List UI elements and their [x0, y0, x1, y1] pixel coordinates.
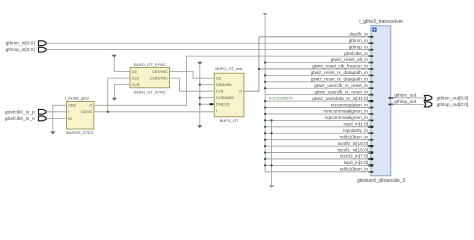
svg-text:gtwizard_ultrascale_0: gtwizard_ultrascale_0 [357, 178, 406, 184]
transceiver pin rxpd_in[1:0] [344, 122, 374, 128]
transceiver pin gtwiz_reset_tx_datapath_in [311, 77, 373, 83]
wire gthtxp out [391, 103, 424, 105]
svg-text:O: O [89, 104, 92, 108]
node txpd junction [271, 164, 273, 166]
svg-text:IB: IB [68, 117, 72, 121]
transceiver pin rx8b10ben_in [340, 134, 374, 140]
svg-text:CLR: CLR [132, 83, 140, 87]
svg-text:txctrl1_in[15:0]: txctrl1_in[15:0] [338, 147, 369, 152]
buffer BUFG_GT_SYNC [130, 62, 170, 94]
transceiver pin tx8b10ben_in [340, 167, 373, 173]
wire IBUFDS O to gtrefclk0_in [94, 56, 371, 105]
svg-text:gtwiz_reset_all_in: gtwiz_reset_all_in [331, 57, 369, 62]
transceiver pin gthtxp_out [389, 99, 417, 105]
wire const to pin row 9 [265, 94, 371, 96]
svg-text:txctrl0_in[15:0]: txctrl0_in[15:0] [338, 141, 369, 146]
port gtrefclk0_in_p [5, 109, 46, 115]
ground bufg mask [197, 125, 202, 128]
wire const to pin row 10 [265, 100, 371, 102]
wire const to pin row 4 [265, 62, 371, 64]
svg-text:gtwiz_userdata_tx_in[31:0]: gtwiz_userdata_tx_in[31:0] [312, 96, 368, 101]
wire const to pin row 19 [265, 158, 371, 160]
wire const to pin row 16 [265, 139, 371, 141]
svg-text:CEB: CEB [68, 104, 76, 108]
ground const rail [269, 185, 274, 188]
svg-text:gthrxp_in[0:0]: gthrxp_in[0:0] [6, 47, 35, 53]
ground sync clr [112, 98, 117, 101]
wire rail to DIV [200, 103, 214, 105]
wire vcc to CE [114, 58, 130, 71]
transceiver pin rxpcommaalignen_in [325, 115, 374, 121]
wire mask rail [199, 65, 201, 125]
wire const to pin row 11 [265, 107, 371, 109]
wire gthrxp net [47, 49, 371, 51]
transceiver pin gtrefclk0_in [344, 51, 373, 57]
wire const to pin row 17 [265, 145, 371, 147]
wire BUFG O to drpclk [244, 37, 371, 91]
svg-text:i_gthe3_transceiver: i_gthe3_transceiver [359, 19, 403, 25]
svg-text:gtwiz_reset_tx_datapath_in: gtwiz_reset_tx_datapath_in [311, 77, 368, 82]
wire const to pin row 18 [265, 152, 371, 154]
buffer BUFG_GT_inst [214, 66, 244, 123]
svg-text:ODIV2: ODIV2 [81, 110, 92, 114]
expand icon + [372, 28, 376, 32]
wire const to pin row 7 [265, 81, 371, 83]
svg-text:BUFG_GT_SYNC: BUFG_GT_SYNC [134, 89, 166, 94]
wire freerun tap [259, 68, 371, 70]
port gthtxn_out[0:0] [424, 95, 468, 101]
svg-text:gthtxp_out[0:0]: gthtxp_out[0:0] [437, 102, 469, 108]
transceiver pin gthrxp_in [349, 44, 374, 50]
svg-text:CEMASK: CEMASK [216, 83, 232, 87]
transceiver pin gthrxn_in [349, 38, 374, 44]
transceiver block i_gthe3_transceiver [357, 19, 406, 184]
svg-text:rxmcommaalignen_in: rxmcommaalignen_in [323, 109, 368, 114]
port gthrxp_in[0:0] [6, 47, 46, 53]
svg-text:CLR: CLR [216, 90, 224, 94]
wire const to pin row 6 [265, 74, 371, 76]
buffer i_ibufds_gte3 IBUFDS_GTE3 [65, 95, 94, 135]
port gthrxn_in[0:0] [6, 41, 46, 47]
svg-text:rxcommadeten_in: rxcommadeten_in [331, 102, 369, 107]
svg-text:gtrefclk0_in: gtrefclk0_in [344, 51, 368, 56]
transceiver pin rxmcommaalignen_in [323, 109, 373, 115]
svg-text:txpd_in[1:0]: txpd_in[1:0] [344, 160, 368, 165]
transceiver pin gtwiz_reset_clk_freerun_in [312, 64, 373, 70]
transceiver pin txctrl2_in[7:0] [340, 154, 373, 160]
wire refclk_p net [46, 111, 66, 113]
transceiver pin gtwiz_reset_all_in [331, 57, 374, 63]
wire CLR to ground [114, 85, 130, 98]
transceiver pin gtwiz_userdata_tx_in[31:0] [312, 96, 373, 102]
wire CEB to ground [53, 105, 67, 131]
svg-text:drpclk_in: drpclk_in [349, 32, 368, 37]
svg-text:rxpd_in[1:0]: rxpd_in[1:0] [344, 122, 369, 127]
node rxpolarity junction [271, 132, 273, 134]
wire refclk_n net [46, 117, 66, 119]
node rxpcomma junction [271, 119, 273, 121]
transceiver pin gthtxn_out [389, 93, 417, 99]
wire gnd rail 2 [271, 120, 273, 185]
transceiver pin gtwiz_userclk_tx_reset_in [314, 89, 373, 95]
svg-text:DIV[2:0]: DIV[2:0] [216, 103, 230, 107]
svg-text:gthtxn_out[0:0]: gthtxn_out[0:0] [437, 95, 469, 101]
svg-text:tx8b10ben_in: tx8b10ben_in [340, 167, 369, 172]
svg-text:BUFG_GT_SYNC: BUFG_GT_SYNC [134, 62, 166, 67]
wire CLK tap [108, 78, 130, 112]
svg-text:gtwiz_reset_rx_datapath_in: gtwiz_reset_rx_datapath_in [311, 70, 369, 75]
wire const to pin row 13 [265, 119, 371, 121]
svg-text:rxpcommaalignen_in: rxpcommaalignen_in [325, 115, 369, 120]
svg-text:gthtxp_out: gthtxp_out [394, 99, 417, 104]
svg-text:CLRMASK: CLRMASK [216, 96, 235, 100]
power vcc const rail [263, 13, 268, 15]
svg-text:gthtxn_out: gthtxn_out [394, 93, 417, 98]
wire ODIV2 to BUFG I [94, 111, 214, 113]
wire const to pin row 8 [265, 87, 371, 89]
transceiver pin rxcommadeten_in [331, 102, 374, 108]
wire gthrxn net [47, 42, 371, 44]
svg-text:gthrxn_in[0:0]: gthrxn_in[0:0] [6, 41, 35, 47]
svg-text:txctrl2_in[7:0]: txctrl2_in[7:0] [340, 154, 368, 159]
node odiv2 junction [107, 111, 109, 113]
transceiver pin txpd_in[1:0] [344, 160, 374, 166]
svg-text:I: I [68, 110, 69, 114]
svg-text:gtrefclk0_in_p: gtrefclk0_in_p [5, 109, 35, 115]
svg-text:BUFG_GT_inst: BUFG_GT_inst [215, 66, 243, 71]
wire const to pin row 15 [265, 132, 371, 134]
transceiver pin drpclk_in [349, 32, 373, 38]
pin DIV bus tick [210, 103, 214, 105]
wire const to pin row 12 [265, 113, 371, 115]
svg-text:gthrxn_in: gthrxn_in [349, 38, 369, 43]
wire gthtxn out [391, 97, 424, 99]
svg-text:i_ibufds_gte3: i_ibufds_gte3 [65, 95, 89, 100]
transceiver pin rxpolarity_in [343, 128, 374, 134]
svg-text:CE: CE [216, 77, 222, 81]
port gthtxp_out[0:0] [424, 102, 468, 108]
svg-text:CLK: CLK [132, 77, 140, 81]
power vcc bufg mask [197, 62, 202, 65]
ground ceb [50, 132, 55, 135]
wire const rail vertical [265, 16, 371, 172]
svg-text:rxpolarity_in: rxpolarity_in [343, 128, 369, 133]
svg-text:gtwiz_userclk_tx_reset_in: gtwiz_userclk_tx_reset_in [314, 89, 368, 94]
svg-text:gtwiz_reset_clk_freerun_in: gtwiz_reset_clk_freerun_in [312, 64, 368, 69]
wire CLRSYNC to CLR [170, 78, 215, 91]
svg-text:gthrxp_in: gthrxp_in [349, 44, 369, 49]
svg-text:O: O [239, 90, 242, 94]
wire CESYNC to CE [170, 71, 215, 78]
svg-text:rx8b10ben_in: rx8b10ben_in [340, 134, 369, 139]
transceiver pin gtwiz_reset_rx_datapath_in [311, 70, 374, 76]
wire rail to CEMASK [200, 84, 214, 86]
svg-text:CLRSYNC: CLRSYNC [150, 77, 168, 81]
wire const to pin row 20 [265, 164, 371, 166]
svg-text:gtrefclk0_in_n: gtrefclk0_in_n [5, 116, 35, 122]
svg-text:BUFG_GT: BUFG_GT [220, 118, 239, 123]
power vcc sync ce [112, 55, 117, 58]
port gtrefclk0_in_n [5, 116, 46, 122]
svg-text:I: I [216, 109, 217, 113]
transceiver pin txctrl0_in[15:0] [338, 141, 374, 147]
svg-text:IBUFDS_GTE3: IBUFDS_GTE3 [66, 130, 94, 135]
svg-text:CESYNC: CESYNC [152, 70, 168, 74]
svg-text:gtwiz_userclk_rx_reset_in: gtwiz_userclk_rx_reset_in [314, 83, 368, 88]
wire const to pin row 14 [265, 126, 371, 128]
transceiver pin gtwiz_userclk_rx_reset_in [314, 83, 373, 89]
svg-text:CE: CE [132, 70, 138, 74]
svg-text:b<d'1234567b': b<d'1234567b' [269, 96, 293, 100]
transceiver pin txctrl1_in[15:0] [338, 147, 374, 153]
wire rail to CLRMASK [200, 97, 214, 99]
